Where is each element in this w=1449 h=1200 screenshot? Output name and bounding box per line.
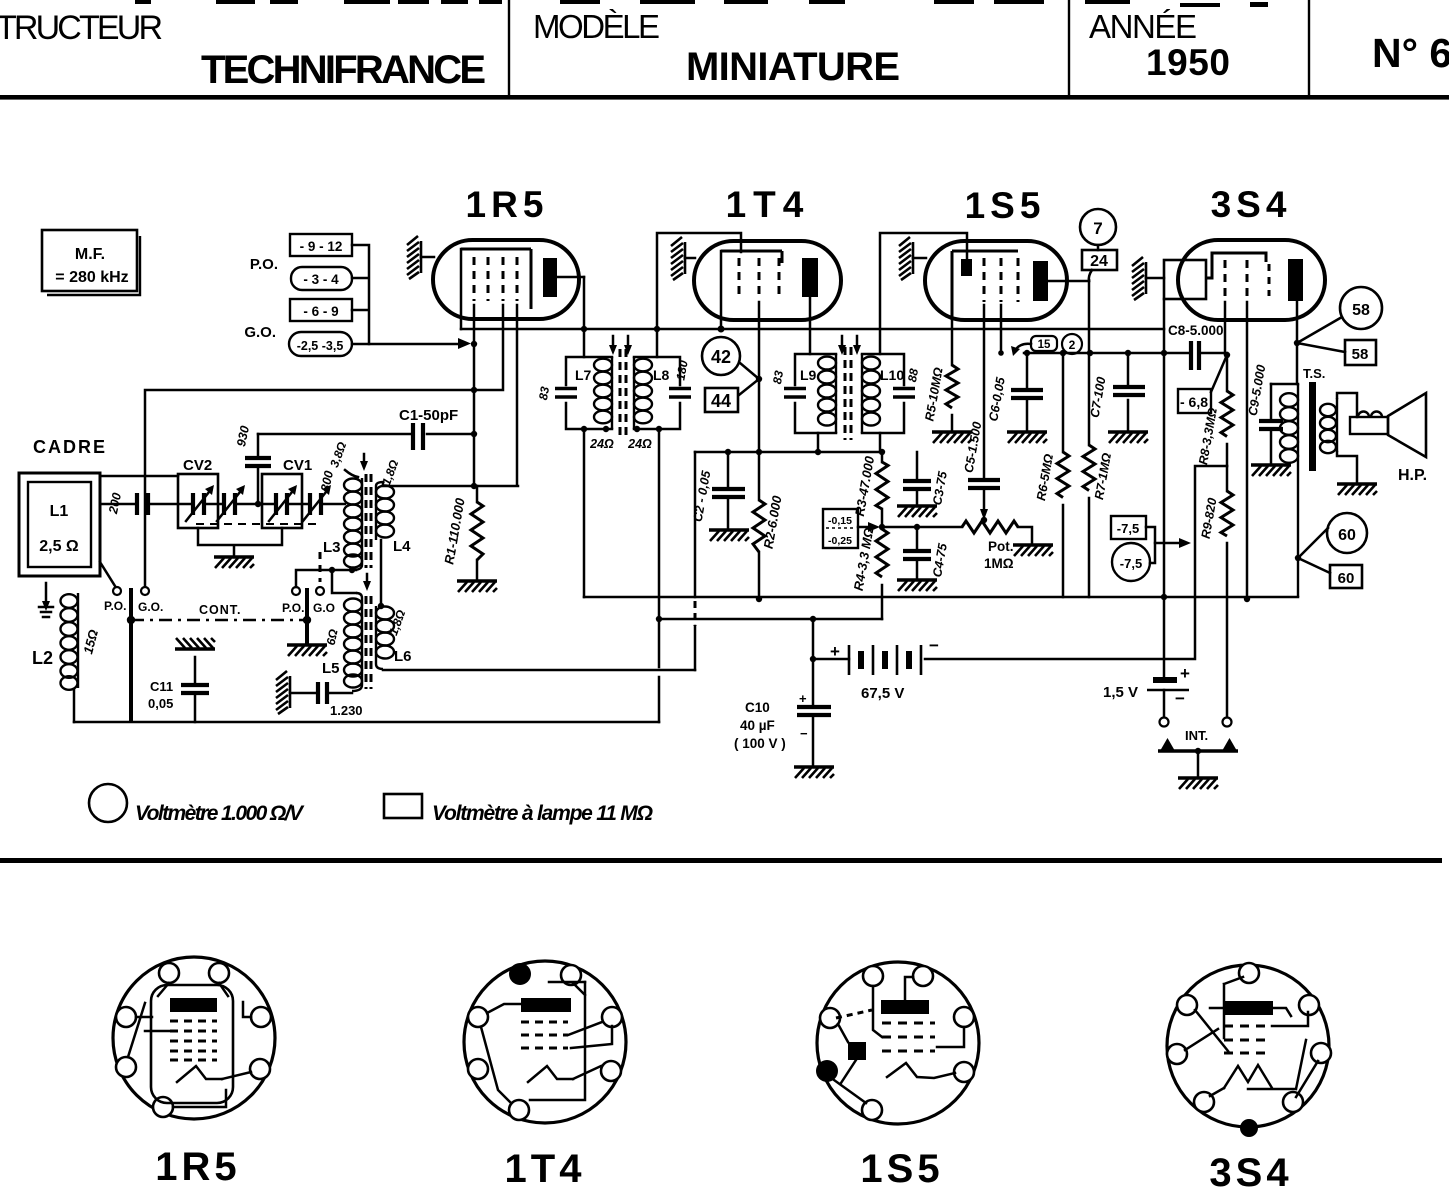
- M.F. frequency box: [42, 230, 140, 295]
- bottom left ground bus: [74, 721, 659, 724]
- osc core arrow mid: [366, 574, 369, 582]
- tap box -2,5-3,5: [289, 332, 352, 356]
- wire C1 row y434: [258, 433, 474, 436]
- wire battery minus return: [925, 466, 1227, 659]
- leaders 58: [1297, 317, 1345, 352]
- svg-text:24Ω: 24Ω: [589, 437, 614, 451]
- callout circle -7,5: [1112, 543, 1150, 581]
- coil L8: [633, 357, 635, 429]
- wire 1R5 anode riser to MF1: [583, 277, 586, 357]
- capacitor C5-1.500: [968, 480, 1000, 488]
- wire AVC row y527: [882, 526, 962, 529]
- capacitor C3-75: [916, 452, 919, 505]
- capacitor C10 electrolytic: [734, 691, 831, 766]
- arrow from bias box: [858, 526, 869, 529]
- wire L9 bottom stem: [817, 433, 820, 452]
- capacitor 88 (MF2): [893, 389, 915, 398]
- svg-text:- 9 - 12: - 9 - 12: [300, 239, 343, 254]
- svg-text:G.O.: G.O.: [138, 600, 163, 614]
- oscillator coil L3: [344, 478, 362, 570]
- frame antenna L1: [19, 473, 100, 576]
- wire mid horizontal y619: [659, 618, 882, 621]
- pot wiper arrow: [983, 488, 986, 510]
- socket 1T4: [464, 961, 626, 1191]
- battery 67,5V: [830, 636, 939, 702]
- svg-text:1950: 1950: [1146, 42, 1230, 83]
- svg-text:C1-50pF: C1-50pF: [399, 407, 458, 424]
- svg-text:M.F.: M.F.: [75, 246, 105, 263]
- tube 1S5: [925, 185, 1089, 320]
- wire L4 bottom to L6 top: [380, 540, 383, 604]
- svg-text:P.O.: P.O.: [104, 599, 126, 613]
- wire 1S5 inner left to R5: [951, 320, 954, 365]
- wire hatch to 1S5: [913, 257, 926, 260]
- svg-text:CV2: CV2: [183, 457, 212, 474]
- dash-dot gang line: [131, 619, 307, 621]
- gang dashed link: [196, 523, 318, 525]
- svg-text:L9: L9: [800, 367, 817, 383]
- resistor R4-3,3M: [876, 529, 888, 577]
- wire hatch to 3S4: [1146, 277, 1164, 280]
- wire hatch to 1T4: [685, 257, 695, 260]
- ground under R1: [457, 581, 497, 592]
- callout box -6,8: [1178, 389, 1211, 413]
- svg-text:+: +: [1180, 664, 1190, 683]
- osc core arrow top: [363, 454, 366, 462]
- chassis block at 3S4: [1132, 257, 1146, 300]
- callout box 24: [1082, 250, 1117, 270]
- svg-text:G.O: G.O: [313, 601, 335, 615]
- switch INT.: [1160, 718, 1169, 727]
- svg-text:83: 83: [770, 369, 786, 385]
- svg-text:= 280 kHz: = 280 kHz: [55, 269, 128, 286]
- svg-text:44: 44: [711, 391, 731, 411]
- svg-text:60: 60: [1338, 527, 1356, 544]
- wire 1T4 grid riser x759: [758, 302, 761, 500]
- hook arrow at AF line end: [1015, 344, 1031, 351]
- svg-text:L10: L10: [880, 367, 904, 383]
- MF1 core arrows: [612, 336, 615, 346]
- variable capacitor CV1: [262, 474, 302, 528]
- svg-text:-7,5: -7,5: [1117, 521, 1139, 536]
- speaker cone H.P.: [1388, 393, 1426, 457]
- callout box 60: [1330, 565, 1362, 588]
- wire C2 box left riser: [694, 452, 697, 597]
- svg-text:−: −: [800, 726, 808, 741]
- wire L6 to riser: [383, 669, 695, 672]
- svg-text:58: 58: [1352, 302, 1370, 319]
- leaders 60: [1298, 528, 1330, 573]
- svg-text:0,05: 0,05: [148, 696, 173, 711]
- wire L1 top to CV row: [100, 475, 178, 478]
- resistor R2-6.000: [753, 500, 765, 552]
- wire 3S4 grid riser to R8: [1224, 302, 1227, 354]
- svg-text:3S4: 3S4: [1209, 1151, 1292, 1195]
- svg-text:P.O.: P.O.: [250, 256, 278, 273]
- wire R6 riser: [1062, 353, 1065, 597]
- wire arrow to 1R5 grid: [369, 343, 459, 346]
- chassis block at 1R5: [407, 236, 421, 279]
- svg-text:Pot.: Pot.: [988, 539, 1014, 554]
- callout box 15: [1031, 336, 1057, 351]
- tube 1R5: [433, 184, 584, 319]
- svg-text:2: 2: [1069, 338, 1076, 352]
- wire y486 L4 to grid: [383, 305, 518, 486]
- svg-text:- 6,8: - 6,8: [1180, 394, 1208, 410]
- svg-text:1T4: 1T4: [505, 1147, 586, 1191]
- trimmer arrow 2: [224, 493, 235, 515]
- svg-text:+: +: [799, 691, 807, 706]
- legend voltmeter box: [384, 794, 422, 818]
- svg-text:7: 7: [1093, 219, 1102, 238]
- svg-text:- 6 - 9: - 6 - 9: [303, 304, 338, 319]
- antenna arrow below L1: [45, 583, 48, 602]
- wire osc grid riser x474: [473, 305, 476, 486]
- wire filament line x1164: [1163, 299, 1166, 677]
- svg-text:60: 60: [1338, 570, 1355, 587]
- capacitor 930: [257, 434, 260, 504]
- svg-text:ANNÉE: ANNÉE: [1089, 8, 1197, 45]
- oscillator coil L4: [376, 482, 394, 540]
- leader 24 to anode wire: [1089, 270, 1092, 281]
- svg-text:58: 58: [1352, 346, 1369, 363]
- callout circle 60: [1327, 513, 1367, 553]
- tap box -9-12: [290, 234, 352, 256]
- svg-text:MINIATURE: MINIATURE: [686, 45, 900, 89]
- callout circle 7: [1080, 209, 1116, 245]
- svg-text:CV1: CV1: [283, 457, 312, 474]
- svg-text:2,5 Ω: 2,5 Ω: [39, 538, 79, 555]
- header column dividers: [509, 0, 1309, 95]
- callout circle 42: [702, 337, 740, 375]
- wire L1 to P.O. terminal: [100, 562, 115, 586]
- oscillator coil L6: [376, 606, 394, 669]
- wire R9 link and to switch: [1226, 466, 1229, 718]
- IF transformer MF1 left box L7: [566, 357, 612, 429]
- resistor R7-1M: [1083, 445, 1095, 491]
- terminal P.O. 1: [113, 587, 121, 595]
- svg-text:Voltmètre 1.000 Ω/V: Voltmètre 1.000 Ω/V: [135, 802, 305, 825]
- wire 3S4 anode to output transformer: [1296, 301, 1299, 384]
- T.S. core: [1309, 382, 1316, 471]
- wire filament riser x695: [694, 626, 697, 670]
- wire L7 bottom riser to bus2: [583, 429, 586, 597]
- svg-text:P.O.: P.O.: [282, 601, 304, 615]
- capacitor C4-75: [916, 527, 919, 579]
- svg-text:L8: L8: [653, 367, 670, 383]
- terminal G.O. 1: [141, 587, 149, 595]
- capacitor 83 (MF2): [784, 389, 806, 398]
- svg-text:MODÈLE: MODÈLE: [533, 8, 660, 45]
- svg-text:-2,5 -3,5: -2,5 -3,5: [297, 339, 344, 353]
- wire AF line y353: [1024, 352, 1227, 355]
- wire R3/R4 junction: [881, 509, 884, 529]
- svg-text:40 µF: 40 µF: [740, 718, 775, 733]
- tube 3S4: [1164, 184, 1325, 320]
- socket 1S5: [816, 962, 979, 1191]
- IF transformer MF1 right box L8: [634, 357, 680, 429]
- wire 1S5 anode riser x1089: [1088, 280, 1091, 597]
- wire battery plus stub: [813, 619, 849, 705]
- resistor R9-820: [1221, 491, 1233, 536]
- osc core dashed: [366, 474, 371, 689]
- capacitor C11: [148, 638, 215, 722]
- HT return bus (second horizontal): [584, 596, 1298, 599]
- coil L7: [611, 357, 613, 429]
- T.S. primary coil: [1297, 384, 1299, 597]
- wire osc grid line y390: [145, 305, 503, 587]
- MF2 core: [845, 347, 851, 440]
- resistor R1-110.000: [476, 486, 479, 580]
- callout box -7,5: [1111, 516, 1146, 539]
- resistor R5-10M: [946, 365, 958, 408]
- potentiometer 1M: [962, 521, 1018, 533]
- secondary wiring: [1337, 393, 1357, 483]
- wire 1S5 grid 2 stem: [1000, 305, 1003, 353]
- svg-text:24Ω: 24Ω: [627, 437, 652, 451]
- svg-text:+: +: [830, 642, 840, 661]
- chassis block at 1S5: [899, 237, 913, 280]
- socket 1R5: [113, 957, 275, 1189]
- socket 3S4: [1167, 963, 1331, 1195]
- svg-text:15: 15: [1038, 339, 1051, 351]
- svg-text:-0,25: -0,25: [828, 535, 852, 547]
- svg-text:N° 65: N° 65: [1372, 30, 1449, 76]
- T.S. secondary coil: [1336, 398, 1338, 452]
- svg-text:L7: L7: [575, 367, 592, 383]
- svg-text:TECHNIFRANCE: TECHNIFRANCE: [201, 48, 486, 92]
- band switch lever 1: [129, 588, 133, 722]
- tap box -3-4: [291, 267, 352, 290]
- tube 1T4: [694, 184, 841, 320]
- header rule: [0, 95, 1449, 100]
- thick divider: [0, 858, 1442, 863]
- wire L8 bottom / riser x659: [658, 429, 661, 722]
- svg-text:C8-5.000: C8-5.000: [1168, 323, 1224, 338]
- callout circle 58: [1340, 287, 1382, 329]
- svg-text:1S5: 1S5: [965, 185, 1046, 226]
- wires tap boxes to collector: [352, 245, 369, 344]
- svg-text:CONT.: CONT.: [199, 603, 242, 617]
- scan artifacts top edge: [135, 0, 1268, 7]
- callout box 44: [705, 388, 738, 412]
- wire AVC riser x880 L10 bottom: [879, 433, 882, 452]
- wire C7 stem: [1127, 353, 1130, 431]
- resistor R8-3,3M: [1221, 391, 1233, 437]
- wire 1T4 inner left riser: [720, 251, 723, 329]
- svg-text:-0,15: -0,15: [828, 515, 852, 527]
- svg-text:-7,5: -7,5: [1120, 556, 1142, 571]
- wires switch 2: [296, 570, 356, 593]
- svg-text:1R5: 1R5: [155, 1145, 240, 1189]
- ground under switch 2: [287, 645, 327, 656]
- svg-text:TRUCTEUR: TRUCTEUR: [0, 9, 163, 47]
- terminal G.O. 2: [316, 587, 324, 595]
- svg-text:L2: L2: [32, 648, 53, 668]
- band switch lever 2: [305, 588, 309, 644]
- MF2 core arrows: [841, 336, 844, 346]
- svg-text:1S5: 1S5: [860, 1147, 943, 1191]
- svg-text:L5: L5: [322, 660, 340, 677]
- wire 1R5 screen box left down to bus: [460, 249, 463, 329]
- capacitor 180 (MF1): [669, 389, 691, 398]
- svg-text:INT.: INT.: [1185, 728, 1208, 743]
- MF1 core: [620, 349, 626, 437]
- chassis block at 1.230: [276, 671, 290, 714]
- capacitor 83 (MF1): [555, 389, 577, 398]
- svg-text:- 3 - 4: - 3 - 4: [303, 272, 339, 287]
- svg-text:3S4: 3S4: [1211, 184, 1292, 225]
- legend voltmeter circle: [89, 784, 127, 822]
- svg-text:L4: L4: [393, 538, 411, 555]
- speaker voice coil: [1350, 417, 1388, 434]
- resistor R6-5M: [1057, 452, 1069, 498]
- callout circle 2: [1062, 334, 1082, 354]
- svg-text:1,5 V: 1,5 V: [1103, 684, 1138, 701]
- CV ground link: [198, 528, 282, 557]
- wire 1T4 top loop to MF1 L8: [657, 233, 741, 357]
- wire 1T4 anode to L9: [809, 297, 812, 354]
- svg-text:L3: L3: [323, 539, 341, 556]
- coil L2: [61, 593, 79, 690]
- callout box 58: [1345, 340, 1376, 365]
- svg-text:−: −: [929, 636, 939, 655]
- svg-text:L6: L6: [394, 648, 412, 665]
- svg-text:−: −: [1175, 689, 1185, 708]
- oscillator coil L5: [344, 593, 362, 691]
- chassis block at 1T4: [671, 237, 685, 280]
- capacitor C2-0,05: [727, 452, 730, 529]
- bracket and arrow -7,5: [1146, 527, 1155, 563]
- svg-text:Voltmètre à lampe 11 MΩ: Voltmètre à lampe 11 MΩ: [432, 802, 653, 825]
- svg-text:88: 88: [905, 367, 921, 383]
- wire L2 bottom to ground bus: [73, 689, 76, 722]
- capacitor C7-100: [1113, 387, 1145, 395]
- wire R8 link: [1226, 354, 1229, 466]
- wire 1S5 grid to C5: [983, 305, 986, 478]
- svg-text:T.S.: T.S.: [1303, 366, 1325, 381]
- tap box -6-9: [290, 299, 352, 321]
- svg-text:L1: L1: [50, 503, 69, 520]
- svg-text:G.O.: G.O.: [244, 324, 276, 341]
- resistor R3-47.000: [881, 452, 884, 462]
- tuning cap row wire: [100, 503, 345, 506]
- variable capacitor CV2: [178, 474, 218, 528]
- wire 3S4 screen riser x1247: [1246, 302, 1249, 599]
- svg-text:67,5 V: 67,5 V: [861, 685, 904, 702]
- svg-text:H.P.: H.P.: [1398, 467, 1427, 484]
- capacitor 200: [137, 493, 148, 515]
- svg-text:CADRE: CADRE: [33, 437, 107, 457]
- capacitor 1.230: [290, 692, 352, 695]
- svg-text:1T4: 1T4: [726, 184, 811, 225]
- svg-text:( 100 V ): ( 100 V ): [734, 736, 786, 751]
- svg-text:42: 42: [711, 347, 731, 367]
- IF transformer MF2 right box L10: [862, 354, 904, 433]
- svg-text:1.230: 1.230: [330, 703, 363, 718]
- svg-text:1R5: 1R5: [466, 184, 549, 225]
- wire 1S5 top loop to L10: [880, 233, 967, 354]
- trimmer arrow 4: [310, 493, 321, 515]
- svg-text:83: 83: [536, 385, 552, 401]
- terminal P.O. 2: [292, 587, 300, 595]
- svg-text:24: 24: [1090, 253, 1108, 270]
- B+ bus (top horizontal): [461, 328, 1164, 331]
- svg-text:1MΩ: 1MΩ: [984, 556, 1014, 571]
- capacitor C6-0,05: [1026, 353, 1029, 431]
- wire detector row y452: [695, 451, 882, 454]
- svg-text:C10: C10: [745, 700, 770, 715]
- svg-text:C11: C11: [150, 679, 173, 694]
- ground under CV: [214, 557, 254, 568]
- bias tap box 0,15/0,25: [823, 509, 858, 548]
- capacitor C9-5.000: [1270, 384, 1273, 464]
- IF transformer MF2 left box L9: [795, 354, 836, 433]
- leader lines 42/44: [739, 363, 759, 395]
- battery 1,5V: [1153, 677, 1177, 683]
- wire hatch to 1R5: [421, 256, 434, 259]
- ground under C2: [709, 530, 749, 541]
